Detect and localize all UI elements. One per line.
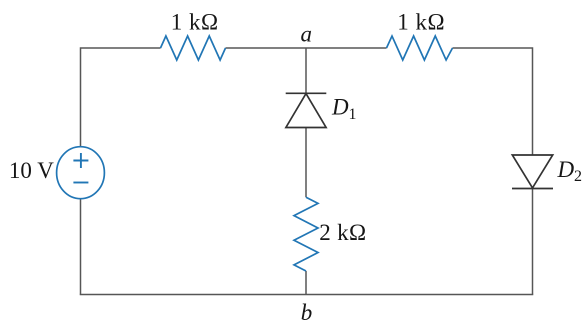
- resistor R2 1 kOhm (top-right zigzag): [387, 36, 453, 60]
- diode D1 (cathode bar on top, triangle pointing up): [286, 93, 327, 127]
- wire top-right: right resistor to corner down to D2: [453, 48, 533, 155]
- wire top-left: corner to left resistor: [81, 48, 161, 147]
- wire bottom rail: [80, 294, 534, 296]
- resistor R1 1 kOhm (top-left zigzag): [161, 36, 226, 60]
- wire top middle: between resistors through node a: [226, 47, 387, 49]
- svg-text:2 kΩ: 2 kΩ: [319, 220, 366, 245]
- svg-text:1: 1: [349, 106, 357, 123]
- svg-text:a: a: [301, 22, 313, 47]
- svg-text:1 kΩ: 1 kΩ: [397, 10, 445, 35]
- svg-text:b: b: [301, 300, 313, 325]
- wire D1 to 2k resistor: [305, 128, 307, 198]
- wire right-bottom: D2 to bottom rail: [532, 189, 534, 295]
- svg-text:10 V: 10 V: [9, 158, 54, 183]
- svg-text:D: D: [331, 95, 349, 120]
- voltage source V1 10 V: [57, 147, 105, 199]
- wire 2k resistor to node b: [305, 271, 307, 295]
- resistor R3 2 kOhm (vertical zigzag): [294, 197, 318, 271]
- svg-text:D: D: [557, 157, 575, 182]
- minus sign: [73, 182, 88, 184]
- diode D2 (triangle pointing down, cathode bar at bottom): [512, 155, 553, 189]
- plus sign: [73, 153, 88, 168]
- svg-text:2: 2: [574, 168, 582, 185]
- wire node a to D1: [305, 48, 307, 93]
- wire left-bottom: source to bottom-left corner: [80, 199, 82, 295]
- svg-text:1 kΩ: 1 kΩ: [171, 10, 219, 35]
